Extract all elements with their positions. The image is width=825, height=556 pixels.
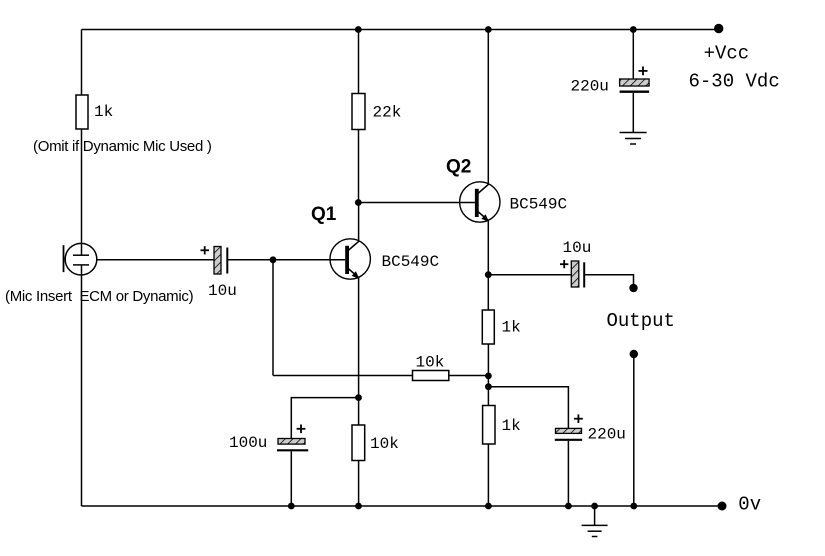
wire bottom 0v rail xyxy=(82,505,723,507)
svg-text:100u: 100u xyxy=(229,434,267,452)
wire Q1 collector to Q2 base xyxy=(358,202,475,204)
node top rail at C3 xyxy=(630,26,637,33)
node Q1 collector xyxy=(355,199,362,206)
node top rail at Q2 xyxy=(485,26,492,33)
node rail at R6 xyxy=(355,503,362,510)
wire Q2 emitter to R3 xyxy=(487,275,489,310)
wire Q2 emitter to C2 xyxy=(488,274,571,276)
wire C5 to rail xyxy=(567,441,569,506)
capacitor C1 10u xyxy=(201,246,228,274)
node base junction xyxy=(270,256,277,263)
svg-text:10k: 10k xyxy=(370,435,399,453)
wire tap to C4 xyxy=(291,398,358,439)
wire top supply rail xyxy=(82,29,719,31)
node rail at C5 xyxy=(565,503,572,510)
wire feedback left segment xyxy=(273,375,413,377)
node Q2 emitter xyxy=(485,271,492,278)
resistor R3 1k xyxy=(482,310,494,344)
node rail at output return xyxy=(630,503,637,510)
wire feedback vertical xyxy=(272,260,274,376)
wire C2 to output terminal xyxy=(584,275,633,285)
microphone MK1 xyxy=(64,243,97,275)
svg-text:Q1: Q1 xyxy=(311,204,337,225)
svg-text:BC549C: BC549C xyxy=(382,253,440,271)
resistor R5 1k xyxy=(483,406,495,445)
wire mic to bottom rail xyxy=(81,265,83,506)
svg-text:220u: 220u xyxy=(571,78,609,96)
resistor R2 22k xyxy=(352,94,365,130)
terminal output plus xyxy=(629,284,637,292)
capacitor C4 100u xyxy=(277,425,308,451)
svg-text:1k: 1k xyxy=(502,319,521,337)
svg-text:Output: Output xyxy=(607,310,675,332)
transistor Q2 xyxy=(460,30,500,275)
resistor R4 10k feedback xyxy=(413,371,449,381)
node rail at G2 xyxy=(591,503,598,510)
terminal 0v xyxy=(718,502,727,511)
svg-text:220u: 220u xyxy=(588,426,626,444)
wire C1 to Q1 base xyxy=(227,259,345,261)
wire C3 to ground xyxy=(632,93,634,133)
capacitor C5 220u xyxy=(555,414,583,439)
svg-text:22k: 22k xyxy=(373,103,402,121)
terminal +Vcc xyxy=(714,24,723,33)
svg-text:(Omit if Dynamic Mic Used ): (Omit if Dynamic Mic Used ) xyxy=(33,138,212,155)
ground G2 xyxy=(582,506,608,537)
svg-text:0v: 0v xyxy=(738,494,761,516)
capacitor C2 10u output xyxy=(560,260,584,288)
transistor Q1 xyxy=(330,203,370,507)
wire left vertical to R1 xyxy=(81,30,83,96)
node rail at R5 xyxy=(485,503,492,510)
wire C4 to rail xyxy=(290,451,292,506)
svg-text:+Vcc: +Vcc xyxy=(704,42,750,64)
resistor R6 10k xyxy=(352,425,365,461)
terminal output minus xyxy=(630,350,638,358)
node rail at C4 xyxy=(288,503,295,510)
node emitter bypass tap xyxy=(355,394,362,401)
capacitor C3 220u xyxy=(620,67,650,92)
svg-text:Q2: Q2 xyxy=(446,157,471,178)
ground G1 xyxy=(620,133,647,145)
wire 22k top xyxy=(358,30,360,94)
node feedback junction xyxy=(485,373,492,380)
wire R5 to rail xyxy=(487,444,489,506)
wire output return xyxy=(633,354,635,506)
wire R1 to mic xyxy=(81,129,83,255)
wire 22k bottom xyxy=(358,130,360,203)
svg-text:10u: 10u xyxy=(563,239,592,257)
wire R3 to R5 xyxy=(487,344,489,406)
svg-text:10k: 10k xyxy=(416,354,445,372)
wire C3 top xyxy=(632,30,634,80)
wire mic output to C1 xyxy=(97,259,214,261)
wire feedback right segment xyxy=(449,375,489,377)
node bypass junction xyxy=(485,383,492,390)
svg-text:BC549C: BC549C xyxy=(510,196,568,214)
wire bypass to C5 xyxy=(488,387,568,429)
svg-text:(Mic Insert ECM or Dynamic): (Mic Insert ECM or Dynamic) xyxy=(5,288,194,305)
svg-text:6-30 Vdc: 6-30 Vdc xyxy=(689,70,780,92)
node top rail at 22k xyxy=(355,26,362,33)
resistor R1 1k xyxy=(76,95,88,129)
svg-text:1k: 1k xyxy=(94,103,113,121)
svg-text:10u: 10u xyxy=(208,282,237,300)
svg-text:1k: 1k xyxy=(502,417,521,435)
